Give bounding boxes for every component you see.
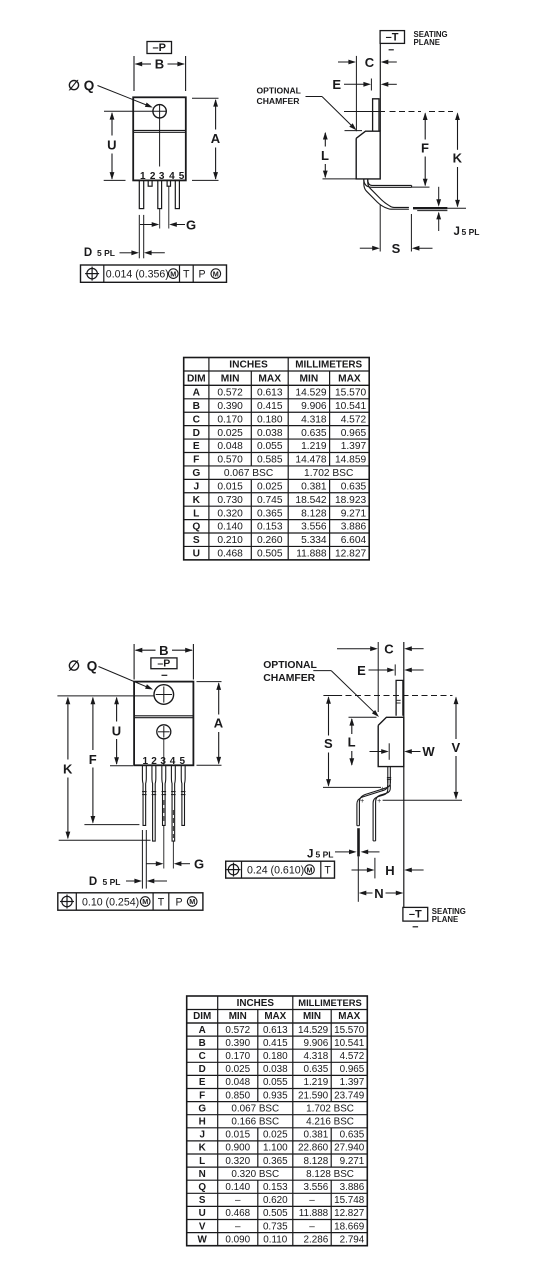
- svg-text:J: J: [199, 1130, 205, 1141]
- svg-text:1.702 BSC: 1.702 BSC: [304, 468, 353, 479]
- drawing 2 front view: K bottom extension line: [59, 839, 151, 841]
- svg-text:T: T: [158, 897, 165, 909]
- svg-text:S: S: [199, 1195, 206, 1206]
- drawing 2 front view: tab/body parting lines: [134, 715, 193, 717]
- svg-text:14.478: 14.478: [295, 455, 326, 466]
- svg-text:Q: Q: [87, 659, 98, 674]
- svg-text:0.935: 0.935: [263, 1090, 288, 1101]
- svg-text:5 PL: 5 PL: [462, 227, 480, 237]
- drawing 2 front view: package body outline: [134, 682, 193, 766]
- drawing 1 side view: K dimension: [455, 112, 460, 120]
- svg-text:0.365: 0.365: [257, 508, 283, 519]
- svg-text:1.702 BSC: 1.702 BSC: [306, 1103, 354, 1114]
- svg-text:0.015: 0.015: [217, 481, 243, 492]
- drawing 1 front view: datum P box: [147, 42, 172, 54]
- drawing 2 front view: pin 4: [171, 766, 175, 842]
- svg-text:B: B: [193, 401, 200, 412]
- drawing 1 front view: true position feature control frame: [81, 265, 227, 282]
- drawing 2 front view: A height dimension: [197, 681, 222, 683]
- drawing 2 front view: pin 3: [162, 766, 166, 826]
- svg-text:8.128: 8.128: [301, 508, 327, 519]
- drawing 1 side view: lead end section (J region): [413, 207, 447, 209]
- svg-text:0.320: 0.320: [225, 1156, 250, 1167]
- drawing 2 front view: datum P dash: [162, 674, 168, 676]
- svg-text:K: K: [193, 495, 201, 506]
- table 1 grid lines: [208, 358, 210, 560]
- svg-text:0.965: 0.965: [340, 1064, 365, 1075]
- svg-text:15.570: 15.570: [334, 1025, 365, 1036]
- svg-text:+: +: [360, 798, 364, 805]
- drawing 1 front view: pin 1: [139, 180, 143, 208]
- drawing 1 front view: D lead width dimension: [138, 215, 140, 258]
- svg-text:E: E: [357, 663, 366, 678]
- drawing 2 front view: F dimension: [91, 697, 96, 705]
- svg-text:2.794: 2.794: [340, 1234, 365, 1245]
- svg-text:1.100: 1.100: [263, 1143, 288, 1154]
- svg-text:0.900: 0.900: [225, 1143, 250, 1154]
- svg-text:0.572: 0.572: [225, 1025, 250, 1036]
- svg-text:0.110: 0.110: [263, 1234, 287, 1245]
- drawing 2 side view: S dimension: [326, 696, 331, 704]
- svg-text:M: M: [170, 269, 176, 278]
- svg-text:J: J: [193, 481, 199, 492]
- svg-text:0.067 BSC: 0.067 BSC: [231, 1103, 279, 1114]
- drawing 1 front view: pin 4: [167, 180, 170, 186]
- svg-text:A: A: [199, 1025, 206, 1036]
- drawing 2 side view: tab profile with break marks: [396, 680, 403, 715]
- drawing 2 side view: body profile with chamfer: [378, 717, 404, 766]
- svg-text:14.529: 14.529: [298, 1025, 329, 1036]
- svg-text:0.260: 0.260: [257, 535, 283, 546]
- svg-text:0.415: 0.415: [263, 1038, 288, 1049]
- drawing 1 side view: F bottom extension line: [412, 186, 430, 188]
- svg-text:5: 5: [180, 756, 186, 767]
- svg-text:3.556: 3.556: [303, 1182, 328, 1193]
- table 2 outer border: [187, 996, 368, 1246]
- svg-text:0.850: 0.850: [225, 1090, 250, 1101]
- svg-text:0.635: 0.635: [303, 1064, 328, 1075]
- svg-text:–T: –T: [386, 31, 399, 43]
- svg-text:OPTIONAL: OPTIONAL: [257, 86, 301, 96]
- svg-text:E: E: [332, 77, 341, 92]
- svg-text:0.048: 0.048: [217, 441, 243, 452]
- svg-text:18.669: 18.669: [334, 1221, 365, 1232]
- svg-text:0.180: 0.180: [257, 414, 283, 425]
- svg-text:0.048: 0.048: [225, 1077, 250, 1088]
- svg-text:0.620: 0.620: [263, 1195, 288, 1206]
- drawing 1 side view: C thickness dimension: [355, 56, 357, 131]
- svg-text:3: 3: [160, 756, 166, 767]
- drawing 2 side view: N dimension: [357, 856, 359, 901]
- svg-text:0.025: 0.025: [263, 1130, 288, 1141]
- svg-text:C: C: [384, 641, 394, 656]
- svg-text:PLANE: PLANE: [432, 915, 458, 924]
- svg-text:–P: –P: [152, 42, 165, 54]
- svg-text:B: B: [159, 643, 168, 658]
- svg-text:INCHES: INCHES: [237, 998, 275, 1009]
- svg-text:5 PL: 5 PL: [103, 877, 121, 887]
- svg-text:S: S: [324, 736, 333, 751]
- svg-text:15.570: 15.570: [335, 388, 366, 399]
- svg-text:L: L: [199, 1156, 205, 1167]
- svg-text:1: 1: [143, 756, 149, 767]
- svg-text:0.015: 0.015: [225, 1130, 250, 1141]
- svg-text:0.014 (0.356): 0.014 (0.356): [106, 269, 169, 281]
- svg-text:14.529: 14.529: [295, 388, 326, 399]
- drawing 2 front view: pin 3 centerline (dashed in pin, solid below): [163, 800, 165, 824]
- svg-text:S: S: [193, 535, 200, 546]
- svg-text:10.541: 10.541: [335, 401, 366, 412]
- drawing 2 front view: G pitch dimension: [147, 863, 160, 865]
- svg-text:0.505: 0.505: [257, 549, 283, 560]
- svg-text:MAX: MAX: [338, 1011, 360, 1022]
- svg-text:0.730: 0.730: [217, 495, 243, 506]
- svg-text:MAX: MAX: [338, 374, 361, 385]
- svg-text:0.140: 0.140: [217, 522, 243, 533]
- drawing 1 side view: tab profile: [373, 99, 379, 131]
- svg-text:1.397: 1.397: [340, 1077, 365, 1088]
- svg-text:1.397: 1.397: [341, 441, 367, 452]
- svg-text:3.886: 3.886: [341, 522, 367, 533]
- svg-text:0.025: 0.025: [225, 1064, 250, 1075]
- svg-text:L: L: [321, 148, 329, 163]
- drawing 2 side view: datum T box: [403, 907, 428, 921]
- svg-text:4.318: 4.318: [301, 414, 327, 425]
- svg-text:A: A: [193, 388, 201, 399]
- svg-text:0.585: 0.585: [257, 455, 283, 466]
- svg-text:–T: –T: [409, 909, 422, 921]
- svg-text:F: F: [89, 752, 97, 767]
- svg-text:0.505: 0.505: [263, 1208, 288, 1219]
- svg-text:V: V: [199, 1221, 206, 1232]
- drawing 1 front view: B width dimension: [133, 56, 135, 91]
- svg-text:21.590: 21.590: [298, 1090, 329, 1101]
- drawing 1 front view: package body outline: [133, 97, 186, 180]
- drawing 2 side view: V dimension: [454, 697, 459, 705]
- svg-text:9.271: 9.271: [340, 1156, 365, 1167]
- svg-text:10.541: 10.541: [334, 1038, 365, 1049]
- table 2 grid lines: [217, 996, 219, 1246]
- drawing 1 side view: S dimension: [379, 205, 381, 252]
- drawing 2 front view: mounting hole with cross: [154, 685, 174, 705]
- svg-text:∅: ∅: [68, 658, 80, 674]
- svg-text:MILLIMETERS: MILLIMETERS: [295, 360, 362, 371]
- svg-text:0.170: 0.170: [225, 1051, 250, 1062]
- svg-text:H: H: [199, 1117, 206, 1128]
- drawing 1 side view: lower bent lead (pins 1,3,5): [364, 179, 409, 209]
- drawing 1 front view: pin 3 centerline extension: [159, 209, 161, 229]
- svg-text:T: T: [183, 269, 190, 281]
- svg-text:B: B: [155, 57, 164, 72]
- svg-text:K: K: [453, 151, 463, 166]
- svg-text:L: L: [348, 735, 356, 750]
- drawing 2 side view: front lead end section (J region): [357, 828, 360, 856]
- svg-text:0.210: 0.210: [217, 535, 243, 546]
- svg-text:9.906: 9.906: [301, 401, 327, 412]
- svg-text:MIN: MIN: [229, 1011, 247, 1022]
- svg-text:C: C: [365, 55, 375, 70]
- svg-text:9.906: 9.906: [303, 1038, 328, 1049]
- svg-text:G: G: [194, 857, 204, 872]
- svg-text:CHAMFER: CHAMFER: [263, 673, 315, 684]
- svg-text:0.570: 0.570: [217, 455, 243, 466]
- drawing 1 side view: K bottom extension line: [447, 207, 466, 209]
- drawing 2 side view: C thickness dimension: [377, 642, 379, 712]
- drawing 2 side view: flatness feature control frame: [226, 861, 335, 878]
- svg-text:Q: Q: [198, 1182, 206, 1193]
- svg-text:J: J: [454, 226, 460, 238]
- svg-text:K: K: [199, 1143, 207, 1154]
- svg-text:0.320: 0.320: [217, 508, 243, 519]
- drawing 1 side view: datum T dash: [389, 49, 394, 51]
- svg-text:C: C: [199, 1051, 206, 1062]
- svg-text:–: –: [309, 1195, 315, 1206]
- svg-text:18.542: 18.542: [295, 495, 326, 506]
- svg-text:0.635: 0.635: [341, 481, 367, 492]
- svg-text:0.745: 0.745: [257, 495, 283, 506]
- drawing 2 front view: F bottom extension line: [84, 824, 139, 826]
- svg-text:INCHES: INCHES: [229, 360, 268, 371]
- drawing 2 front view: pin 4 centerline (dashed in pin, solid below): [172, 810, 174, 838]
- drawing 2 front view: B width dimension: [133, 644, 135, 680]
- svg-text:D: D: [193, 428, 200, 439]
- svg-text:1.219: 1.219: [303, 1077, 328, 1088]
- svg-text:M: M: [189, 897, 195, 906]
- svg-text:6.604: 6.604: [341, 535, 367, 546]
- svg-text:0.390: 0.390: [225, 1038, 250, 1049]
- drawing 2 side view: lead column with break marks: [388, 767, 391, 784]
- svg-text:A: A: [211, 131, 221, 146]
- svg-text:PLANE: PLANE: [414, 38, 440, 47]
- svg-text:S: S: [392, 241, 401, 256]
- svg-text:8.128: 8.128: [303, 1156, 328, 1167]
- svg-text:0.153: 0.153: [263, 1182, 288, 1193]
- svg-text:M: M: [307, 865, 313, 874]
- svg-text:∅: ∅: [68, 77, 80, 93]
- svg-text:12.827: 12.827: [335, 549, 366, 560]
- drawing 2 front view: D lead width dimension: [141, 830, 143, 889]
- svg-text:0.038: 0.038: [257, 428, 283, 439]
- svg-text:0.055: 0.055: [263, 1077, 288, 1088]
- svg-text:12.827: 12.827: [334, 1208, 364, 1219]
- svg-text:0.468: 0.468: [225, 1208, 250, 1219]
- svg-text:0.381: 0.381: [303, 1130, 328, 1141]
- svg-text:0.170: 0.170: [217, 414, 243, 425]
- svg-text:+: +: [377, 798, 381, 805]
- svg-text:0.365: 0.365: [263, 1156, 288, 1167]
- svg-text:D: D: [89, 876, 97, 888]
- svg-text:–: –: [235, 1221, 241, 1232]
- drawing 1 front view: tab/body parting lines: [133, 129, 186, 131]
- svg-text:U: U: [199, 1208, 206, 1219]
- svg-text:23.749: 23.749: [334, 1090, 365, 1101]
- svg-text:G: G: [198, 1103, 206, 1114]
- drawing 2 front view: hole center extension line: [57, 695, 153, 697]
- svg-text:F: F: [193, 455, 199, 466]
- drawing 1 front view: pin 2: [148, 180, 152, 186]
- svg-text:MIN: MIN: [303, 1011, 321, 1022]
- svg-text:N: N: [199, 1169, 206, 1180]
- svg-text:9.271: 9.271: [341, 508, 367, 519]
- drawing 2 side view: seating plane line: [403, 642, 405, 907]
- svg-text:J: J: [307, 849, 313, 861]
- svg-text:22.860: 22.860: [298, 1143, 329, 1154]
- svg-text:0.055: 0.055: [257, 441, 283, 452]
- drawing 2 front view: pin 5: [181, 766, 185, 826]
- svg-text:0.635: 0.635: [340, 1130, 365, 1141]
- svg-text:CHAMFER: CHAMFER: [257, 96, 301, 106]
- svg-text:5.334: 5.334: [301, 535, 327, 546]
- svg-text:5 PL: 5 PL: [97, 248, 115, 258]
- svg-text:DIM: DIM: [187, 374, 206, 385]
- svg-text:0.153: 0.153: [257, 522, 283, 533]
- svg-text:MAX: MAX: [264, 1011, 286, 1022]
- drawing 1 front view: U dimension: [110, 112, 115, 120]
- svg-text:T: T: [324, 865, 331, 877]
- drawing 1 front view: G pitch dimension: [140, 224, 155, 226]
- svg-text:MILLIMETERS: MILLIMETERS: [298, 997, 362, 1008]
- svg-text:0.613: 0.613: [257, 388, 283, 399]
- svg-text:M: M: [213, 269, 219, 278]
- drawing 2 side view: rear formed lead (pins 2,4): [373, 785, 388, 841]
- svg-text:U: U: [112, 724, 121, 739]
- svg-text:0.572: 0.572: [217, 388, 243, 399]
- drawing 2 side view: datum T dash: [413, 926, 419, 928]
- svg-text:0.180: 0.180: [263, 1051, 288, 1062]
- drawing 2 front view: true position feature control frame: [58, 893, 203, 910]
- drawing 1 side view: reference center line (dashed): [344, 111, 385, 113]
- drawing 1 side view: body profile with chamfer: [356, 131, 380, 179]
- svg-text:V: V: [451, 740, 460, 755]
- svg-text:4: 4: [170, 756, 176, 767]
- svg-text:0.025: 0.025: [217, 428, 243, 439]
- svg-text:4.572: 4.572: [341, 414, 367, 425]
- svg-text:L: L: [193, 508, 199, 519]
- svg-text:27.940: 27.940: [334, 1143, 365, 1154]
- svg-text:G: G: [192, 468, 200, 479]
- svg-text:0.166 BSC: 0.166 BSC: [231, 1117, 279, 1128]
- svg-text:E: E: [199, 1077, 206, 1088]
- svg-text:0.635: 0.635: [301, 428, 327, 439]
- svg-text:MIN: MIN: [300, 374, 319, 385]
- drawing 2 front view: K dimension: [66, 697, 71, 705]
- svg-text:DIM: DIM: [193, 1011, 211, 1022]
- svg-text:11.888: 11.888: [299, 1208, 329, 1219]
- drawing 2 front view: pin 1: [142, 766, 146, 826]
- drawing 2 side view: S bottom extension line: [323, 786, 381, 788]
- svg-text:OPTIONAL: OPTIONAL: [263, 660, 317, 671]
- drawing 2 front view: lower hole with cross: [157, 725, 171, 739]
- svg-text:5 PL: 5 PL: [316, 850, 334, 860]
- svg-text:H: H: [385, 863, 394, 878]
- svg-text:U: U: [193, 549, 200, 560]
- drawing 2 front view: datum P box: [151, 658, 177, 669]
- svg-text:D: D: [84, 247, 92, 259]
- drawing 1 side view: F dimension: [423, 112, 428, 120]
- svg-text:–P: –P: [157, 658, 170, 670]
- svg-text:0.090: 0.090: [225, 1234, 250, 1245]
- drawing 2 side view: W dimension: [388, 743, 390, 760]
- svg-text:0.415: 0.415: [257, 401, 283, 412]
- svg-text:0.320 BSC: 0.320 BSC: [231, 1169, 279, 1180]
- svg-text:0.381: 0.381: [301, 481, 327, 492]
- svg-text:4.572: 4.572: [340, 1051, 365, 1062]
- svg-text:2.286: 2.286: [303, 1234, 328, 1245]
- drawing 1 side view: upper bent lead (pins 2,4): [364, 179, 412, 187]
- drawing 1 side view: datum T box: [380, 31, 404, 44]
- svg-text:G: G: [186, 217, 196, 232]
- drawing 2 front view: U dimension: [114, 697, 119, 705]
- svg-text:0.613: 0.613: [263, 1025, 288, 1036]
- drawing 2 front view: U bottom extension line: [110, 765, 133, 767]
- drawing 1 side view: L dimension: [345, 130, 363, 132]
- svg-text:14.859: 14.859: [335, 455, 366, 466]
- drawing 2 side view: front formed lead (pins 1,3,5): [357, 779, 388, 826]
- drawing 2 side view: reference center line (dashed): [323, 695, 342, 697]
- svg-text:A: A: [214, 716, 224, 731]
- svg-text:MAX: MAX: [258, 374, 281, 385]
- table 1 outer border: [184, 358, 370, 560]
- svg-text:3.556: 3.556: [301, 522, 327, 533]
- svg-text:Q: Q: [192, 522, 200, 533]
- svg-text:F: F: [199, 1090, 205, 1101]
- svg-text:M: M: [142, 897, 148, 906]
- drawing 1 front view: pin 4 centerline: [168, 186, 170, 228]
- drawing 1 front view: mounting hole with crosshair: [153, 105, 166, 118]
- drawing 2 front view: pin 2: [152, 766, 156, 842]
- svg-text:–: –: [235, 1195, 241, 1206]
- svg-text:0.067 BSC: 0.067 BSC: [224, 468, 273, 479]
- svg-text:0.735: 0.735: [263, 1221, 288, 1232]
- drawing 2 front view: centerline hole to pin 3: [163, 739, 165, 765]
- svg-text:C: C: [193, 414, 201, 425]
- svg-text:8.128 BSC: 8.128 BSC: [306, 1169, 354, 1180]
- svg-text:0.038: 0.038: [263, 1064, 288, 1075]
- svg-text:F: F: [421, 140, 429, 155]
- drawing 1 front view: A height dimension: [192, 97, 219, 99]
- svg-text:MIN: MIN: [221, 374, 240, 385]
- svg-text:3.886: 3.886: [340, 1182, 365, 1193]
- svg-text:D: D: [199, 1064, 206, 1075]
- svg-text:0.390: 0.390: [217, 401, 243, 412]
- svg-text:0.140: 0.140: [225, 1182, 250, 1193]
- svg-text:W: W: [198, 1234, 208, 1245]
- drawing 2 side view: L dimension: [349, 716, 377, 718]
- drawing 1 front view: pin 3: [158, 180, 162, 208]
- svg-text:1.219: 1.219: [301, 441, 327, 452]
- svg-text:P: P: [198, 269, 205, 281]
- svg-text:4.216 BSC: 4.216 BSC: [306, 1117, 354, 1128]
- svg-text:0.10 (0.254): 0.10 (0.254): [82, 897, 139, 909]
- svg-text:2: 2: [151, 756, 157, 767]
- drawing 2 side view: V bottom extension line: [383, 799, 462, 801]
- svg-text:18.923: 18.923: [335, 495, 366, 506]
- svg-text:+: +: [380, 786, 384, 793]
- svg-text:B: B: [199, 1038, 206, 1049]
- drawing 1 front view: pin 5: [175, 180, 179, 208]
- svg-text:U: U: [107, 137, 116, 152]
- svg-text:P: P: [175, 897, 182, 909]
- svg-text:E: E: [193, 441, 200, 452]
- svg-text:11.888: 11.888: [296, 549, 327, 560]
- svg-text:W: W: [422, 744, 435, 759]
- svg-text:N: N: [374, 886, 383, 901]
- drawing 1 side view: J lead thickness dimension: [438, 187, 440, 201]
- drawing 2 side view: H dimension: [374, 858, 376, 879]
- svg-text:0.468: 0.468: [217, 549, 243, 560]
- drawing 1 side view: seating plane line: [379, 43, 381, 131]
- svg-text:–: –: [309, 1221, 315, 1232]
